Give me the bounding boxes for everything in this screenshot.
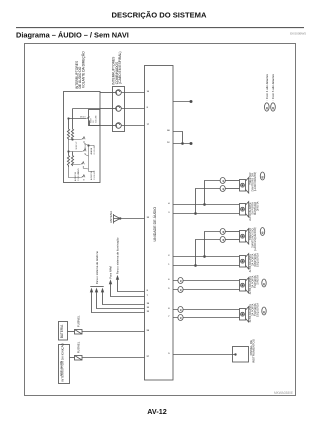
svg-text:AUMENTA: AUMENTA	[74, 172, 77, 181]
svg-text:ESQUERDA: ESQUERDA	[257, 303, 260, 317]
page number AV-12	[147, 407, 166, 416]
steering switch tiny labels	[74, 115, 98, 181]
svg-text:DESCRIÇÃO DO SISTEMA: DESCRIÇÃO DO SISTEMA	[112, 10, 207, 19]
spiral contact 3	[116, 123, 122, 129]
steering switch internal network	[67, 109, 100, 181]
unit pins rear right pair	[168, 308, 170, 318]
svg-text:(LADO ESQUERDO): (LADO ESQUERDO)	[254, 227, 257, 251]
wire battery to fuse	[68, 331, 75, 333]
svg-text:(LADO DIREITO): (LADO DIREITO)	[254, 172, 257, 191]
svg-text:MKWA0380E: MKWA0380E	[274, 391, 293, 395]
callout oval 45 rear R	[262, 307, 266, 315]
connector oval 45 tweeter L wire 2	[220, 186, 225, 192]
label INTERRUPTORES COMBINADOS (CABO EM ESPIRAL)	[112, 52, 122, 85]
svg-text:AUMENTA: AUMENTA	[90, 171, 93, 180]
wire ignition to fuse	[70, 357, 75, 359]
callout oval 45 rear L	[262, 279, 266, 287]
label Para o sistema de telefone	[95, 251, 99, 285]
svg-text:ESQUERDA: ESQUERDA	[257, 253, 260, 267]
svg-text:VOLANTE DA DIREÇÃO: VOLANTE DA DIREÇÃO	[80, 51, 85, 88]
rear right speaker SP6	[240, 307, 249, 322]
door speaker SP2	[240, 202, 249, 217]
label door speaker SP4	[249, 253, 260, 272]
svg-text:: Com 6 alto-falantes: : Com 6 alto-falantes	[271, 73, 275, 100]
wire switchbox to contact 2	[100, 108, 116, 110]
svg-text:EKS00BW5: EKS00BW5	[290, 32, 306, 36]
wire unit to instrument panel	[168, 353, 236, 356]
section heading	[16, 31, 129, 40]
figure code	[274, 391, 293, 395]
label FUSIVEL F1	[77, 315, 81, 327]
svg-text:: Com 4 alto-falantes: : Com 4 alto-falantes	[265, 73, 269, 100]
svg-text:Diagrama – ÁUDIO – / Sem NAVI: Diagrama – ÁUDIO – / Sem NAVI	[16, 31, 129, 40]
unit pins rear left pair	[168, 279, 170, 290]
label door speaker SP2	[249, 201, 260, 220]
label rear left speaker	[249, 275, 260, 294]
callout oval 46 tweeter 2	[260, 228, 264, 236]
svg-text:Para o sistema de telefone: Para o sistema de telefone	[95, 251, 99, 285]
connector oval 46 tweeter 2 wire 2	[220, 237, 225, 243]
connector oval 45 rear L wire 2	[178, 287, 183, 293]
rear left speaker SP5	[240, 278, 249, 293]
svg-text:FUSÍVEL: FUSÍVEL	[77, 315, 81, 327]
doc id	[290, 32, 306, 36]
svg-text:O VOLUME: O VOLUME	[78, 171, 80, 181]
label PAINEL DE INSTRUMENTOS	[249, 339, 256, 363]
wire unit pin 12 to terminal 2	[167, 142, 192, 145]
page title	[112, 10, 207, 19]
wire unit pin 24 jumper	[167, 129, 182, 144]
svg-text:MODO: MODO	[80, 116, 86, 118]
svg-text:INSTRUMENTOS: INSTRUMENTOS	[252, 339, 256, 363]
rear left speaker wires	[173, 281, 240, 290]
instrument panel box	[233, 347, 249, 363]
wire fuse to unit pin 58	[82, 330, 150, 332]
wire contact 3 to unit pin 17	[121, 124, 150, 126]
svg-text:VOLUME: VOLUME	[96, 115, 98, 123]
svg-text:O VOLUME: O VOLUME	[94, 170, 96, 180]
svg-text:ACC ou ON: ACC ou ON	[59, 361, 63, 376]
svg-text:BATERIA: BATERIA	[60, 324, 64, 338]
svg-text:DIREITA: DIREITA	[257, 275, 260, 285]
connector oval 45 tweeter L wire 1	[220, 178, 225, 184]
fuse F2	[75, 356, 83, 361]
label Para NAVI	[109, 266, 113, 279]
svg-text:SEEK UP: SEEK UP	[76, 141, 78, 150]
spiral contact 1	[116, 90, 122, 96]
pins telephone navi illumination	[147, 290, 150, 313]
svg-text:Para o sistema de iluminação: Para o sistema de iluminação	[116, 237, 120, 274]
door speaker SP4	[240, 254, 249, 269]
label FUSIVEL F2	[77, 341, 81, 353]
svg-text:ANTENA: ANTENA	[109, 211, 113, 223]
connector oval 45 rear L wire 1	[178, 278, 183, 284]
front group 2 speaker wires	[173, 232, 240, 267]
svg-text:ABAIXA: ABAIXA	[90, 147, 93, 154]
svg-text:O VOLUME: O VOLUME	[94, 144, 96, 154]
unit pins group 2	[168, 255, 170, 266]
spiral contact 2	[116, 106, 122, 112]
label UNIDADE DE AUDIO	[153, 207, 157, 242]
connector oval 46 tweeter 2 wire 1	[220, 229, 225, 235]
wire contact 1 to unit pin 16	[121, 91, 150, 93]
front group 1 speaker wires	[173, 181, 240, 215]
heading rule	[16, 26, 304, 29]
wire contact 2 to unit pin 8	[121, 107, 148, 109]
wire antenna to unit	[120, 217, 150, 219]
connector oval 45 rear R wire 1	[178, 307, 183, 313]
svg-text:(CABO EM ESPIRAL): (CABO EM ESPIRAL)	[118, 52, 122, 84]
wire unit to antenna terminal 1	[173, 100, 192, 102]
antenna ANT1	[114, 214, 121, 224]
connector oval 45 rear R wire 2	[178, 315, 183, 321]
label Para o sistema de iluminacao	[116, 237, 120, 274]
svg-text:UNIDADE DE ÁUDIO: UNIDADE DE ÁUDIO	[153, 207, 157, 242]
svg-text:FUSÍVEL: FUSÍVEL	[77, 341, 81, 353]
ignition switch box S1	[59, 342, 70, 383]
svg-text:Para NAVI: Para NAVI	[109, 266, 113, 279]
spiral cable connector box J1	[113, 87, 125, 132]
svg-text:DOWN: DOWN	[85, 143, 87, 149]
steering audio switch box SW1	[64, 92, 101, 183]
rear right speaker wires	[173, 310, 240, 318]
unit pins group 1	[168, 202, 170, 214]
wires to telephone system	[90, 287, 144, 313]
tweeter 2 SP3	[240, 229, 249, 244]
fuse F1	[75, 330, 83, 335]
wire to illumination system	[116, 276, 144, 291]
label tweeter 1	[249, 172, 257, 192]
label ANTENA	[109, 211, 113, 223]
label tweeter 2	[249, 227, 257, 251]
label INTERRUPTORES DE AUDIO DO VOLANTE DA DIRECAO	[75, 51, 85, 89]
wire to NAVI	[109, 281, 144, 297]
svg-text:AV-12: AV-12	[147, 407, 166, 416]
legend note 45	[265, 73, 270, 111]
battery B1	[59, 322, 68, 341]
legend note 46	[271, 73, 276, 111]
wire switchbox to contact 3	[100, 125, 116, 127]
label rear right speaker	[249, 303, 260, 322]
audio unit U1 box	[145, 66, 174, 381]
callout oval 45 tweeter 1	[260, 172, 264, 180]
wire fuse to unit pin 57	[82, 356, 150, 358]
tweeter 1 SP1	[240, 178, 249, 193]
svg-text:DIREITA: DIREITA	[257, 201, 260, 211]
diagram frame	[25, 44, 296, 396]
wire switchbox to contact 1	[100, 92, 116, 94]
